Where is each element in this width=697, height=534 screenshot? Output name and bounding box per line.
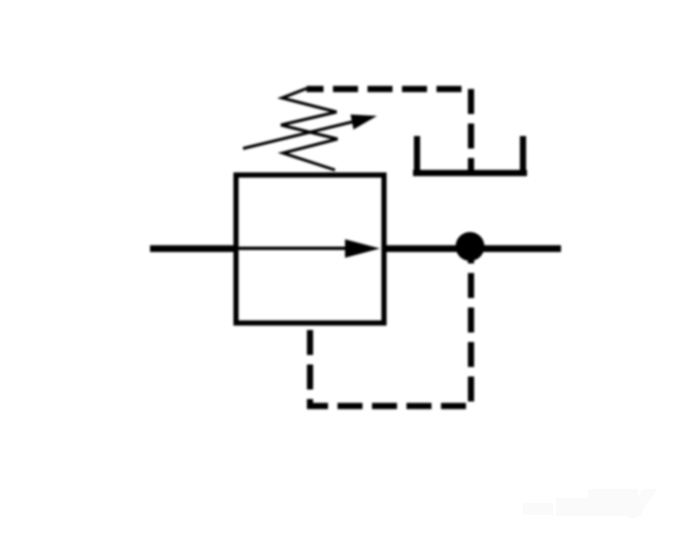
wire outlet line A — [382, 245, 561, 252]
flow path arrow — [238, 239, 380, 257]
adjustment arrow — [243, 115, 377, 149]
junction node — [456, 232, 485, 261]
wire inlet line P — [150, 245, 238, 252]
valve body V1 — [236, 175, 384, 323]
tank T — [413, 136, 527, 173]
pilot line to tank (dashed) — [307, 89, 472, 173]
faint watermark — [523, 489, 658, 518]
pilot sense line (dashed loop) — [310, 253, 471, 406]
spring — [281, 89, 338, 171]
